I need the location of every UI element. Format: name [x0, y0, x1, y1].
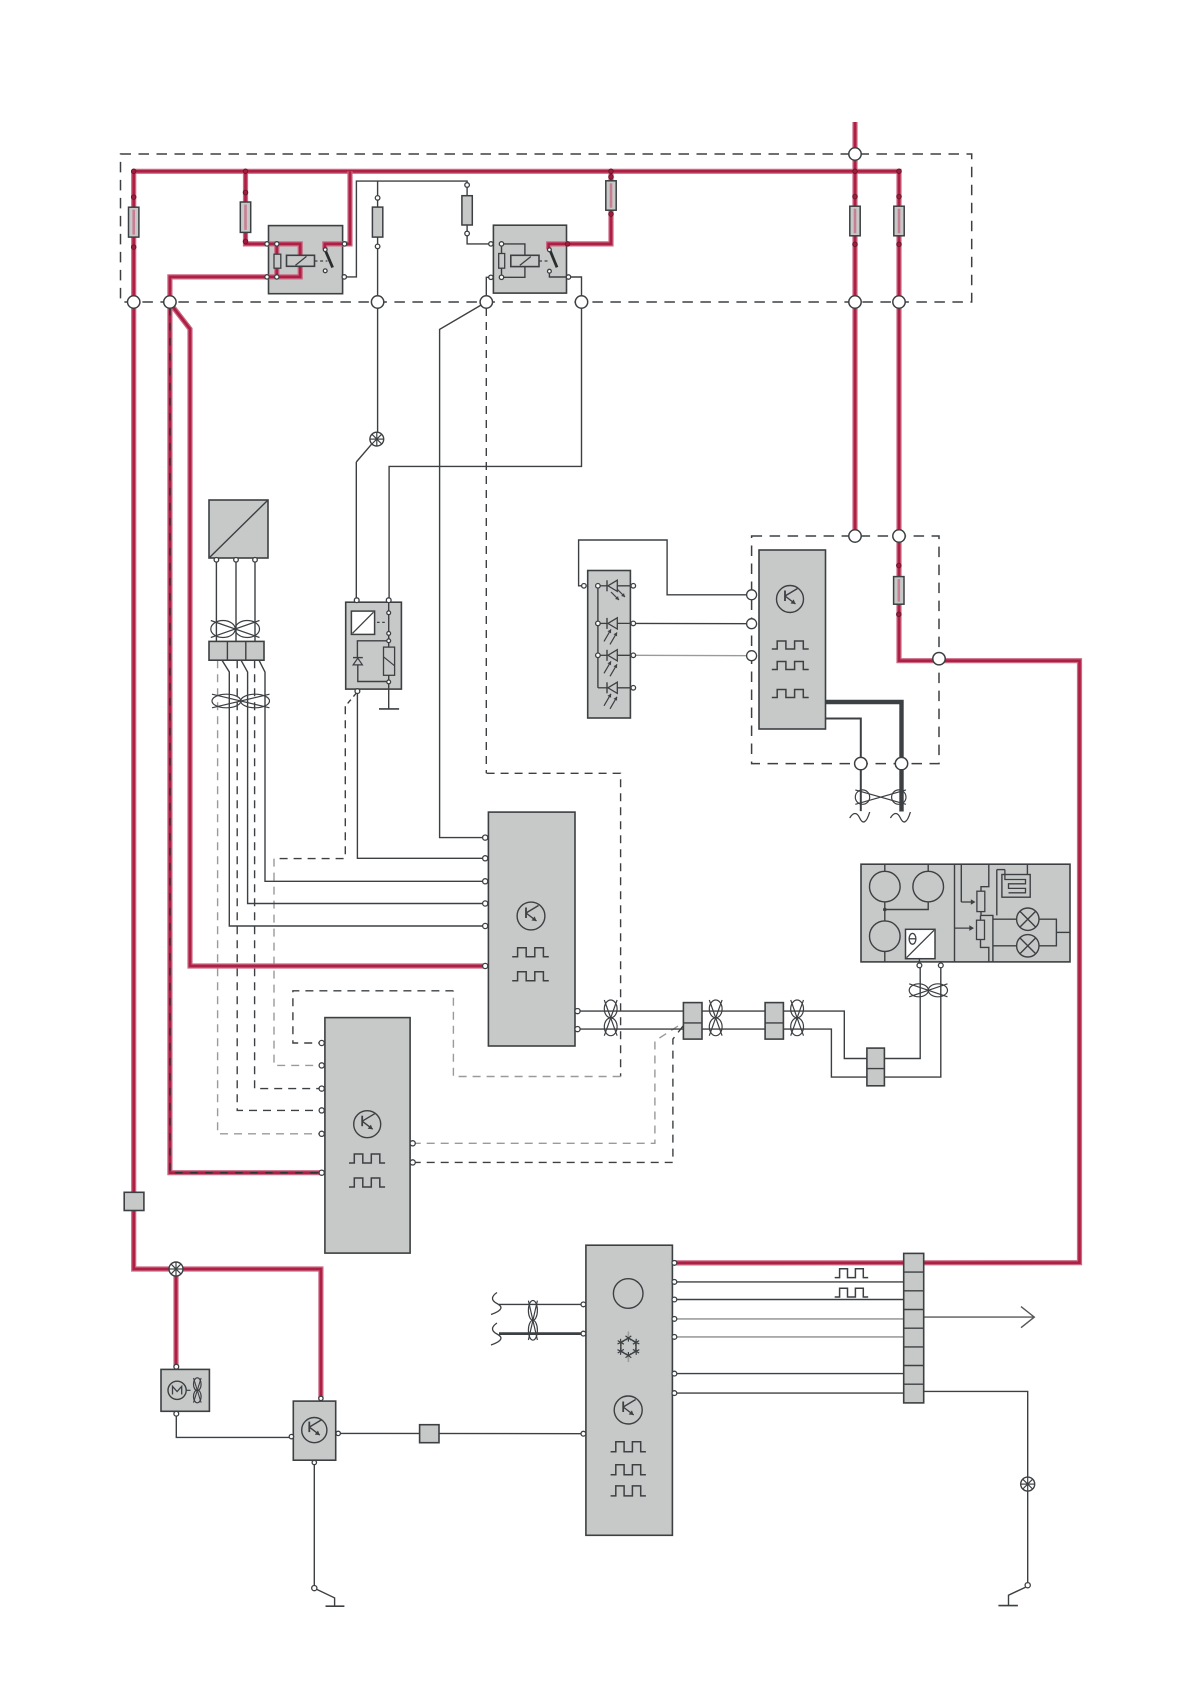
- panel A1 heater element: [997, 864, 1030, 915]
- U7 transistor symbol: [614, 1396, 642, 1424]
- wire U7 out4 (gray): [674, 1318, 903, 1320]
- U2 pulse symbols: [772, 641, 809, 698]
- solar sensor B1 body with diagonal: [209, 500, 268, 558]
- switch S2 blade and ground G1: [317, 1589, 345, 1606]
- control module U4 body: [488, 812, 575, 1046]
- wire LED module pin3 to U2 pin3 (gray): [633, 654, 751, 656]
- dashed wire overlay on red to U5 pin6: [170, 308, 322, 1173]
- wire relay K1 output to fuse F4 and relay K2 coil: [344, 181, 491, 277]
- twisted wires W8: [528, 1301, 537, 1341]
- panel A1 temp sensor box: [906, 929, 936, 963]
- connector pair X1a: [683, 1003, 702, 1040]
- panel A1 lamp 2: [1017, 935, 1039, 957]
- fuse box boundary (dashed): [121, 154, 972, 302]
- relay K1 switch blade: [326, 251, 333, 268]
- wire U2 ground thick: [826, 702, 902, 812]
- U3 zener diode D1: [353, 658, 363, 665]
- red relay K1 coil loop: [267, 244, 300, 277]
- fuse F4: [462, 196, 472, 225]
- wire relay K2 switch out to node31 and control unit U3: [389, 271, 581, 600]
- switch S3 blade and ground G2: [998, 1587, 1025, 1605]
- switch S3 contact: [1025, 1583, 1030, 1588]
- wire climate unit U7 left pin2 thick with break: [491, 1323, 583, 1345]
- U3 internal dashes: [377, 621, 386, 623]
- wire stack X6 to lamp E3 and switch S3: [924, 1391, 1028, 1582]
- relay K1 body: [269, 226, 343, 294]
- wire U3 internal ground G3: [379, 689, 399, 709]
- lamp E3 (illumination): [1021, 1477, 1035, 1491]
- connector X3 on driver output: [420, 1425, 439, 1443]
- red feed from battery through F6: [852, 122, 857, 536]
- connector stack X6 (8x): [904, 1253, 924, 1403]
- U5 transistor symbol: [354, 1111, 381, 1138]
- relay K2 series resistor: [499, 244, 505, 277]
- red junction dots: [131, 169, 901, 617]
- red branch node15 to U4 pin6: [170, 303, 485, 966]
- wire connector block2 to U4 pin4: [241, 660, 485, 903]
- panel A1 lamp wiring: [993, 919, 1070, 946]
- break symbol wire U2 ground: [850, 812, 870, 822]
- node terminals on fuse box: [128, 148, 906, 308]
- wire U7 out5 (gray): [674, 1336, 903, 1338]
- wire U2 signal medium: [826, 719, 861, 812]
- relay K2 coil: [511, 255, 539, 266]
- climate unit U7 body: [586, 1245, 673, 1535]
- wire dashed U5 out1 to connector X1: [413, 1023, 683, 1143]
- U2 pins: [747, 590, 757, 661]
- U7 pulse symbols: [611, 1442, 646, 1496]
- motor M1 fan symbol: [194, 1378, 202, 1403]
- U3 pins: [354, 598, 391, 694]
- wire LED module pin2 to U2 pin2: [633, 622, 751, 624]
- red relay K1 return to node15 and module U5 pin6: [170, 277, 322, 1173]
- lamp E1 (warning): [370, 432, 384, 446]
- LED module B2 body: [588, 571, 631, 719]
- relay K2 pins: [489, 242, 571, 280]
- fuse F3: [372, 207, 382, 237]
- solar sensor B1 pins: [214, 558, 257, 563]
- wire dashed node30 to module U4 boundary: [485, 308, 487, 773]
- rain sensor U3 body: [346, 602, 402, 689]
- switch S1 blade at lamp E1: [356, 444, 371, 600]
- twisted wires W7: [855, 790, 906, 804]
- panel A1 lamp 1: [1017, 908, 1039, 930]
- wire dashed connector block2 to U5 pin4: [237, 660, 322, 1110]
- connector blocks X4 (3x): [209, 641, 264, 660]
- twisted wires W5: [791, 1000, 804, 1036]
- arrow output to rest of system: [924, 1307, 1035, 1328]
- wire dashed connector block1 to U5 pin5: [218, 660, 322, 1134]
- break symbol wire U2 signal: [890, 812, 910, 822]
- wire solar sensor pins to connector blocks: [216, 558, 255, 641]
- pulse symbol on wire out3: [835, 1288, 869, 1297]
- LED module B2 internals (4 diodes): [598, 580, 633, 709]
- fuse F1: [129, 207, 139, 237]
- twisted wires W6: [909, 984, 947, 997]
- U3 right chain wire: [388, 600, 390, 689]
- red drop through F5 to relay K2 switch: [549, 171, 611, 249]
- U3 diode return wire: [358, 665, 389, 682]
- U4 pulse symbols: [512, 948, 549, 981]
- relay K2 coil-switch link (dashed): [539, 260, 548, 262]
- wire U3 to U4 pin2: [357, 691, 485, 858]
- lamp E2 (indicator): [169, 1262, 183, 1276]
- wire driver U6 to climate unit U7 pin3: [338, 1432, 583, 1434]
- U3 variable resistor: [384, 647, 395, 675]
- wire node30 to U4 pin1: [440, 302, 487, 838]
- twisted wires W2: [212, 694, 270, 708]
- U6 transistor symbol: [302, 1418, 327, 1443]
- U4 transistor symbol: [517, 902, 545, 930]
- wire U4 out2 to panel A1 pin2: [578, 966, 941, 1078]
- panel A1 gauges: [870, 864, 944, 962]
- relay module K2/K3 boundary (dashed): [752, 536, 939, 764]
- motor M1 symbol: [168, 1381, 191, 1399]
- U3 branch to zener diode: [357, 641, 388, 658]
- U3 chain circles: [387, 611, 391, 684]
- wire U7 out6: [674, 1373, 903, 1375]
- relay K1 switch contacts: [323, 248, 327, 273]
- panel A1 rheostat 1: [961, 864, 993, 962]
- U7 snowflake symbol: [618, 1332, 640, 1363]
- U5 pulse symbols: [349, 1154, 385, 1187]
- relay K1 series resistor: [274, 254, 281, 268]
- twisted wires W3: [604, 1000, 617, 1036]
- driver U6 pins: [289, 1396, 340, 1465]
- panel A1 rheostat 2: [955, 915, 989, 962]
- relay K2 switch blade: [550, 251, 557, 267]
- wire dashed control unit U3 to U5 pin2: [274, 693, 357, 1066]
- U2 transistor symbol: [777, 586, 804, 613]
- U3 sensor square: [351, 611, 374, 634]
- fuse F3 F4 terminals: [375, 183, 469, 249]
- fuse F6: [850, 206, 860, 236]
- wire dashed connector block3 to U5 pin3: [255, 660, 322, 1088]
- twisted wires W1: [211, 621, 260, 638]
- wire U7 out3: [674, 1299, 903, 1301]
- instrument panel A1 body: [861, 864, 1070, 962]
- wire relay K2 coil return to node30: [486, 277, 491, 302]
- fuse F7: [894, 206, 904, 236]
- connector X2 on red wire: [124, 1192, 144, 1210]
- red drop through F2 to relay K1 coil: [246, 171, 268, 244]
- blower motor M1 body: [161, 1369, 209, 1411]
- wire dashed U5 out2 to connector X1: [413, 1026, 683, 1162]
- red drop F1 down to lamp E2 and driver U6: [134, 171, 321, 1398]
- panel A1 pins: [917, 963, 943, 968]
- wire climate unit U7 left pin1 with break: [491, 1293, 583, 1315]
- switch S2 contact: [312, 1586, 317, 1591]
- red branch lamp E2 to motor M1: [173, 1269, 178, 1367]
- relay K1 coil-switch link (dashed): [315, 260, 328, 262]
- relay K1 pins: [265, 242, 347, 279]
- panel A1 dividers: [954, 864, 956, 962]
- connector pair X5: [867, 1048, 885, 1086]
- node terminals on relay module boundary: [849, 530, 945, 770]
- U7 sun symbol: [613, 1279, 643, 1309]
- wire U7 out7: [674, 1392, 903, 1394]
- twisted wires W4: [709, 1000, 722, 1036]
- wire U4 out1 to panel A1 pin1: [578, 966, 921, 1059]
- relay K2 switch contacts: [548, 248, 552, 273]
- relay K2 body: [493, 225, 566, 293]
- control module U5 body: [325, 1018, 410, 1254]
- output driver U6 body: [293, 1401, 335, 1460]
- control module U2 body: [759, 550, 826, 729]
- U4 pins: [483, 835, 581, 1032]
- fuse F8: [894, 577, 904, 605]
- wire connector block3 to U4 pin3: [259, 660, 485, 881]
- pulse symbol on wire out2: [835, 1269, 869, 1278]
- wire motor M1 to driver U6: [176, 1414, 291, 1438]
- wire connector block1 to U4 pin5: [222, 660, 485, 926]
- relay K1 coil: [287, 255, 315, 266]
- module U4 boundary (dashed) with exit wire to U5 pin1: [293, 773, 621, 1076]
- wire U7 out2: [674, 1281, 903, 1283]
- wire LED module pin1 to U2 pin1: [579, 540, 752, 595]
- wire branch through fuse F3 to lamp E1: [377, 181, 379, 432]
- wire driver U6 to ground switch S2: [313, 1460, 315, 1585]
- motor M1 pins: [174, 1364, 179, 1416]
- red bus and right trunk to stack X6 and U7 pin r1: [134, 171, 1080, 1263]
- U7 pins: [581, 1261, 677, 1437]
- LED module B2 pins: [582, 584, 636, 691]
- relay K2 coil wiring: [502, 244, 525, 277]
- U5 pins: [319, 1040, 415, 1175]
- fuse F5: [606, 181, 616, 210]
- connector pair X1b: [765, 1003, 783, 1040]
- red drop to relay K1 switch: [325, 171, 350, 249]
- fuse F2: [240, 202, 250, 232]
